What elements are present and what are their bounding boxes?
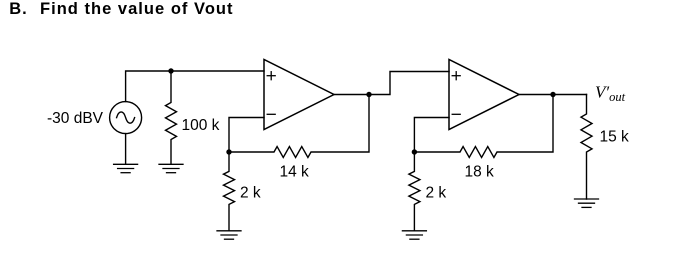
resistor 14 k (feedback, horizontal) bbox=[229, 95, 369, 158]
svg-text:15 k: 15 k bbox=[600, 128, 630, 145]
U1 plus sign bbox=[267, 72, 275, 80]
resistor 15 k (vertical) bbox=[581, 95, 592, 200]
svg-text:100 k: 100 k bbox=[182, 117, 220, 134]
svg-text:Find the value of Vout: Find the value of Vout bbox=[40, 0, 234, 18]
svg-text:B.: B. bbox=[9, 0, 28, 18]
wire U2 output to Vout node bbox=[519, 94, 587, 96]
ground (100 k) bbox=[159, 164, 183, 172]
ground (15 k) bbox=[575, 199, 599, 207]
ground (2 k stage 1) bbox=[217, 231, 241, 239]
voltage source VS -30 dBV bbox=[110, 102, 142, 134]
junction node A: U1 inverting / 2 k / 14 k bbox=[226, 149, 231, 154]
junction node: U1 output bbox=[366, 92, 371, 97]
U2 plus sign bbox=[452, 72, 460, 80]
resistor 2 k (stage 2, vertical) bbox=[409, 152, 420, 231]
junction node: U2 output / 15 k bbox=[550, 92, 555, 97]
ground (source) bbox=[114, 164, 138, 172]
resistor 18 k (feedback, horizontal) bbox=[414, 95, 553, 158]
op-amp U2 bbox=[449, 60, 519, 130]
wire source bottom to ground bbox=[125, 134, 127, 164]
svg-text:14 k: 14 k bbox=[280, 164, 310, 181]
junction node B: U2 inverting / 2 k / 18 k bbox=[412, 149, 417, 154]
U1 minus sign bbox=[267, 113, 275, 115]
svg-text:2 k: 2 k bbox=[426, 185, 447, 202]
wire top rail from source to op-amp U1 + input bbox=[126, 71, 264, 102]
resistor 100 k (vertical) bbox=[166, 71, 177, 164]
wire U2 inverting input to node B bbox=[414, 118, 449, 153]
svg-text:2 k: 2 k bbox=[240, 185, 261, 202]
svg-text:V′out: V′out bbox=[595, 83, 626, 104]
ground (2 k stage 2) bbox=[402, 231, 426, 239]
wire U1 output to stage 2 bbox=[334, 72, 449, 95]
op-amp U1 bbox=[264, 60, 334, 130]
junction node: top rail / 100 k bbox=[168, 68, 173, 73]
U2 minus sign bbox=[452, 113, 460, 115]
resistor 2 k (stage 1, vertical) bbox=[224, 152, 235, 231]
svg-text:-30 dBV: -30 dBV bbox=[47, 110, 104, 127]
wire U1 inverting input to node A bbox=[229, 118, 264, 153]
svg-text:18 k: 18 k bbox=[465, 164, 495, 181]
